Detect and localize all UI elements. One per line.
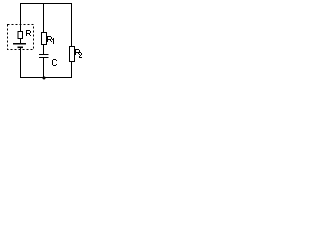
resistor R1: [42, 33, 47, 45]
wire R to battery: [20, 39, 22, 44]
wire bottom rail: [21, 48, 72, 78]
battery cell short plate: [18, 47, 24, 49]
wire top rail: [21, 4, 72, 47]
label R1 : R: [47, 36, 52, 42]
background: [0, 0, 90, 84]
wire middle branch R1-to-C: [43, 45, 45, 55]
label R (internal resistance): [26, 30, 31, 36]
wire middle branch top: [43, 4, 45, 33]
label R2 : R: [75, 49, 80, 55]
label C: [52, 59, 57, 66]
capacitor C bottom plate: [39, 57, 49, 58]
resistor R (internal resistance, in dashed box): [18, 32, 23, 39]
dashed source box: [8, 25, 34, 50]
wire middle branch C-to-bottom: [43, 58, 45, 78]
junction dot: [42, 76, 45, 79]
label R1 : subscript 1: [52, 38, 54, 44]
battery cell long plate: [13, 43, 26, 45]
resistor R2: [70, 47, 75, 62]
label R2 : subscript 2: [79, 52, 82, 58]
capacitor C top plate: [39, 54, 49, 55]
